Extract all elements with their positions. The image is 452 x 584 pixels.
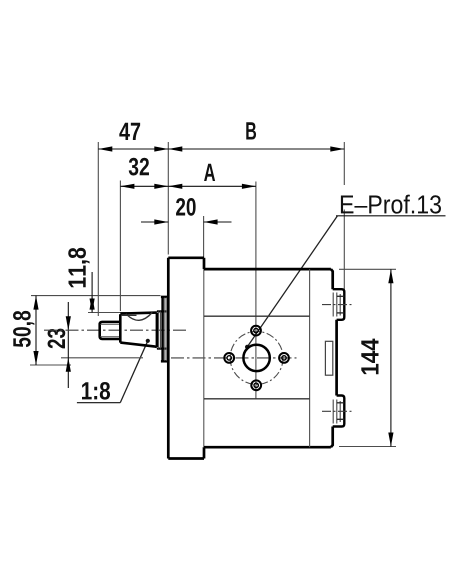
shaft taper (120, 313, 157, 347)
cover plate rectangle (325, 341, 332, 375)
wire: extension line flange rear (203, 216, 205, 267)
keyway floor line (121, 314, 137, 316)
keyway arc (126, 312, 152, 320)
shaft journal (157, 311, 168, 348)
dimension 32 (120, 158, 168, 189)
dimension 144 (339, 269, 396, 446)
label E-Prof.13 (245, 195, 446, 350)
dimension 23 (48, 302, 143, 388)
bolt hole left (224, 353, 234, 363)
bolt hole bottom (251, 380, 261, 390)
pilot boss (161, 297, 168, 361)
body interior line bottom (204, 398, 310, 400)
dimension 50,8 (13, 296, 160, 365)
port horizontal centerline (171, 357, 297, 359)
flange/body joint (203, 269, 205, 447)
flange outline (168, 258, 204, 459)
dimension 47 (98, 123, 168, 152)
journal ring line (158, 311, 160, 348)
dimension B (168, 122, 344, 151)
dimension 11,8 (68, 248, 130, 313)
wire: extension line flange face (167, 142, 169, 255)
port boss bottom (322, 396, 352, 427)
wire: extension line rear face B (343, 142, 345, 185)
wire: extension line taper start (119, 181, 121, 312)
wire: port vertical centerline (255, 182, 257, 399)
bolt hole top (251, 326, 261, 336)
shaft centerline (44, 329, 187, 331)
bolt circle dashed (230, 331, 283, 384)
label 1:8 (77, 339, 150, 403)
body interior line top (204, 315, 310, 317)
dimension 20 (141, 198, 232, 225)
body/cover joint (309, 269, 311, 447)
port big circle (243, 345, 269, 371)
pilot inner lines (164, 298, 166, 361)
wire: extension line shaft tip (97, 142, 99, 316)
shaft thread core lines (101, 323, 120, 325)
dimension A (168, 164, 256, 189)
bolt hole right (279, 353, 289, 363)
port boss top (322, 289, 352, 320)
body outline (204, 269, 337, 447)
shaft thread section (100, 322, 121, 339)
